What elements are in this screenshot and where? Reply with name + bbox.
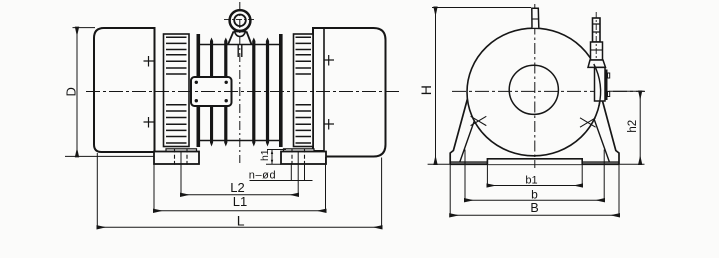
bolt cross lower left cover	[144, 117, 155, 128]
svg-text:h1: h1	[259, 149, 271, 161]
gland pad	[588, 60, 606, 67]
right end cover	[313, 28, 386, 157]
dimension L2	[181, 180, 298, 195]
inner circle shaft hub	[509, 65, 558, 114]
svg-text:L2: L2	[230, 180, 244, 195]
mounting pad	[487, 159, 582, 164]
horizontal centerline right view	[452, 90, 645, 92]
base plate bottom edge	[450, 163, 619, 165]
dimension h2	[609, 91, 645, 164]
eyebolt shank	[238, 45, 242, 58]
vertical centerline right view	[534, 4, 536, 168]
dimension L1	[154, 157, 326, 211]
dimension h1	[259, 149, 286, 164]
left weight cover strip	[164, 34, 190, 147]
svg-text:b: b	[531, 187, 538, 201]
dimension D	[63, 28, 154, 157]
svg-text:L: L	[237, 212, 245, 228]
bolt cross lower right cover	[324, 119, 334, 130]
cable tube	[591, 12, 603, 64]
fin 2	[224, 38, 227, 147]
big circle motor housing	[467, 28, 601, 156]
right strip bottom flange plate	[284, 149, 315, 152]
nameplate	[191, 77, 232, 106]
left leg inner edge	[460, 109, 479, 162]
dimension L	[97, 153, 381, 228]
dimension b1	[487, 164, 582, 186]
right foot	[281, 149, 326, 165]
bolt cross upper left cover	[144, 56, 155, 67]
cross mark left leg	[471, 116, 487, 125]
svg-text:n–ød: n–ød	[249, 169, 276, 181]
bolt cross upper right cover	[324, 55, 334, 66]
left foot hole center / L2 extension	[180, 152, 182, 196]
eyebolt ring	[224, 10, 256, 31]
right weight cover strip	[294, 34, 314, 147]
motor body top and bottom surface	[200, 45, 279, 141]
left foot	[154, 149, 199, 165]
cross mark right leg	[580, 118, 596, 127]
b extension through right leg	[603, 150, 605, 201]
right foot hole center / L2 extension	[297, 152, 299, 196]
motor body right edge band	[279, 34, 283, 147]
horizontal centerline left view	[86, 91, 400, 93]
vertical center axis left view	[239, 2, 241, 163]
eyebolt edge view	[532, 8, 539, 28]
left leg outer edge	[450, 95, 468, 164]
svg-text:D: D	[63, 87, 78, 96]
svg-text:h2: h2	[627, 120, 639, 133]
left strip bottom flange plate	[166, 149, 197, 152]
eyebolt base	[228, 32, 252, 45]
fin 3	[252, 38, 255, 147]
right leg outer edge	[601, 95, 619, 164]
left end cover	[94, 28, 155, 152]
svg-text:L1: L1	[233, 194, 247, 209]
fin 1	[210, 38, 213, 147]
terminal box	[594, 64, 610, 106]
label n-phi-d	[249, 163, 313, 181]
right leg inner edge	[591, 109, 610, 162]
dimension b	[465, 187, 604, 201]
fin 4	[266, 38, 269, 147]
svg-text:H: H	[418, 85, 434, 95]
svg-text:B: B	[530, 201, 538, 215]
dimension B	[450, 164, 619, 216]
dimension H	[418, 8, 531, 165]
b extension through left leg	[464, 150, 466, 201]
base plate top edge	[450, 161, 619, 163]
motor body left edge band	[197, 34, 201, 147]
svg-text:b1: b1	[525, 174, 537, 186]
